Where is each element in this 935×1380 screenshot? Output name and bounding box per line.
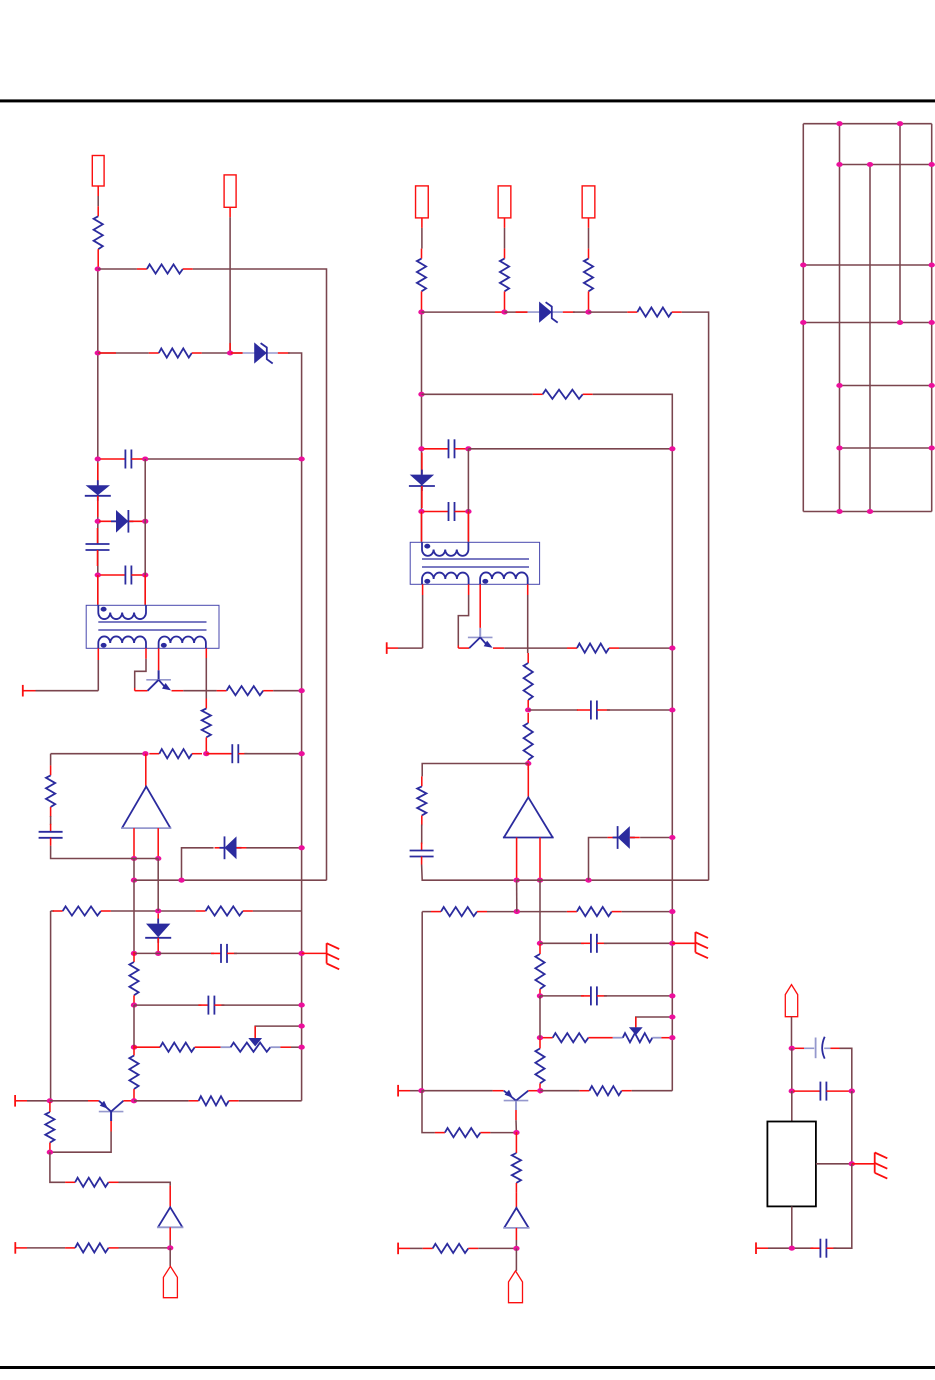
wire left rail upper [97, 268, 99, 544]
node m rowC rail A [669, 909, 675, 914]
diode D8 [608, 826, 640, 849]
wire ladder vertical 4 [899, 124, 901, 323]
wire T1 pin1 lead [97, 648, 99, 660]
wire m row1133 corner [422, 1091, 435, 1133]
wire m rowH mid [540, 1090, 579, 1092]
wire port P6 lead [398, 1247, 410, 1249]
node m rowH col [418, 1088, 424, 1093]
node U1 in1 [131, 856, 137, 861]
resistor R10 vertical [129, 952, 138, 1005]
wire row1 to right rail B [193, 269, 327, 880]
capacitor C9 [424, 502, 471, 521]
wire m pot lead left [613, 1037, 623, 1039]
wire rowC mid [111, 910, 196, 912]
node diode row rail A [298, 845, 304, 850]
op-amp U3 [503, 797, 554, 837]
node m rowH Q4 collector [537, 1088, 543, 1093]
wire m-row1 d [573, 311, 589, 313]
resistor R24 vertical [524, 713, 533, 770]
capacitor C15 [793, 1082, 852, 1101]
transformer T1 polarity dot sec2 [161, 643, 167, 648]
wire rowC to rail A [253, 910, 302, 912]
wire m row1133 b [490, 1132, 516, 1134]
wire m to bullet [515, 1248, 517, 1271]
pot wiper arrow [254, 1026, 256, 1038]
wire amp2 to node [169, 1240, 171, 1248]
resistor R6 [149, 749, 202, 758]
node diode-row right [142, 519, 148, 524]
wire to bullet [169, 1248, 171, 1266]
wire ladder vertical 2 [839, 124, 841, 512]
diode D7 [409, 453, 435, 508]
node ladder r3 a [800, 262, 806, 267]
potentiometer VR1 [231, 1043, 271, 1052]
node reg gnd [849, 1161, 855, 1166]
node ladder r6 a [836, 445, 842, 450]
wire J4 lead [504, 228, 506, 249]
resistor R17 vertical [417, 249, 426, 313]
resistor R33 vertical [512, 1132, 521, 1193]
wire row2 red stub [99, 352, 116, 354]
wire T2 pin1 down [422, 595, 424, 648]
port P1 [22, 685, 24, 697]
node m base row [513, 1130, 519, 1135]
node m col528 b [525, 761, 531, 766]
wire m-row1 red stub [495, 311, 505, 313]
wire m rowH to rail A [632, 1090, 673, 1092]
connector CN2 bullet [509, 1271, 523, 1303]
wire right col mid [851, 1091, 853, 1164]
node emitter row rail A [298, 688, 304, 693]
node m-row1 left [418, 310, 424, 315]
wire collector lead red m [457, 646, 459, 649]
wire m rowC col [421, 912, 423, 1091]
wire ladder vertical 1 [802, 124, 804, 512]
resistor R4 [217, 686, 274, 695]
wire m-cap1 to rail A [468, 448, 672, 450]
node U1 in2 [155, 856, 161, 861]
wire amp2 out lead [169, 1227, 171, 1240]
node m rowG rail A [669, 1035, 675, 1040]
resistor R13 [189, 1096, 239, 1105]
node m-row394 [418, 392, 424, 397]
node ladder r1 b [897, 121, 903, 126]
wire m pot branch [636, 1017, 673, 1027]
node ladder r2 c [929, 162, 935, 167]
wire Q4 base down [515, 1120, 517, 1132]
node diode-row left [95, 519, 101, 524]
wire pot branch [255, 1026, 301, 1037]
port P5 [397, 1085, 399, 1097]
wire emitter red [172, 690, 184, 692]
wire col134 E-G [133, 1005, 135, 1047]
wire ladder vertical 5 [931, 124, 933, 512]
node m-row1 J4 [501, 310, 507, 315]
resistor R23 vertical [524, 653, 533, 710]
wire T1 pin3 base lead [158, 648, 160, 670]
connector CN3 bullet [785, 985, 797, 1017]
node cap-row2 right [142, 572, 148, 577]
node rowD left [131, 951, 137, 956]
wire row2 b [202, 352, 243, 354]
wire m rowB [517, 879, 709, 881]
wire m468 into T2 red [467, 512, 469, 542]
resistor R28 vertical [535, 944, 544, 999]
wire m row763 [422, 764, 528, 777]
wire diode row to rail A [246, 847, 301, 849]
wire m emitter to rail A [619, 647, 672, 649]
transformer T2 primary winding [422, 542, 468, 556]
resistor R26 [431, 907, 487, 916]
capacitor C5 [39, 824, 63, 846]
wire m emitter row [504, 647, 567, 649]
wire U1 input2 lead [157, 828, 159, 858]
resistor R34 [423, 1244, 479, 1253]
resistor R12 vertical [129, 1046, 138, 1099]
wire U3 input1 lead [516, 838, 518, 881]
wire ladder vertical 3 [869, 165, 871, 512]
node ladder r6 b [929, 445, 935, 450]
wire collector lead red [134, 688, 136, 691]
node m emitter rail A [669, 646, 675, 651]
node row2-left junction [95, 350, 101, 355]
wire gnd lead [302, 952, 327, 954]
transformer T2 polarity dot primary [424, 544, 430, 549]
wire reg gnd pin [816, 1163, 850, 1165]
node m-cap1 mid [465, 446, 471, 451]
wire m rowD b [604, 942, 672, 944]
wire m-row1 to rail B [682, 312, 709, 880]
wire ladder row 4 [803, 322, 931, 324]
node m rowC in1 col [514, 909, 520, 914]
wire T2 pin3 base lead [479, 584, 481, 628]
ground G2 [695, 932, 708, 958]
resistor R16 [65, 1243, 118, 1252]
node ladder r4 b [897, 320, 903, 325]
node ladder r4 c [929, 320, 935, 325]
node out left [167, 1245, 173, 1250]
transformer T2 secondary winding 2 [480, 572, 528, 584]
transformer T2 box [410, 542, 539, 584]
transformer T1 secondary winding 1 [98, 636, 146, 648]
wire J2 lead [229, 217, 231, 353]
node m rowE left [537, 993, 543, 998]
node pot branch rail A [298, 1024, 304, 1029]
wire rowE to rail A [221, 1004, 301, 1006]
node row1-left junction [95, 266, 101, 271]
wire cap-row1 to rail A [148, 458, 302, 460]
transformer T1 secondary winding 2 [159, 636, 206, 648]
wire corner to R7 [50, 754, 52, 766]
node right col b [849, 1089, 855, 1094]
node m rowD left [537, 941, 543, 946]
wire m pot lead right [652, 1037, 661, 1039]
transformer T1 polarity dot sec1 [101, 643, 107, 648]
node rowH Q2 collector [131, 1098, 137, 1103]
wire reg bottom row [768, 1247, 813, 1249]
wire ladder row 3 [803, 264, 931, 266]
capacitor C4 [206, 744, 247, 763]
node reg top [789, 1046, 795, 1051]
node row2-J2 junction [227, 350, 233, 355]
node cap-row1 left [95, 456, 101, 461]
capacitor C7 [198, 996, 224, 1015]
wire ladder row 6 [840, 447, 932, 449]
wire rail L1 into T1 red [97, 575, 99, 605]
resistor R22 [567, 644, 619, 653]
wire port P7 lead [756, 1247, 768, 1249]
capacitor C13 [581, 986, 607, 1005]
wire reg bottom pin [791, 1206, 793, 1248]
node m rowD rail A [669, 941, 675, 946]
wire rowH to rail A [239, 1100, 302, 1102]
regulator U5 box [767, 1122, 816, 1207]
node row754 rail A [298, 751, 304, 756]
resistor R3 [149, 348, 202, 357]
wire rowG to rail A [291, 1046, 302, 1048]
wire R25 to C11 [421, 825, 423, 845]
transformer T2 polarity dot sec2 [482, 579, 488, 584]
wire U1 input1 lead [133, 828, 135, 858]
wire row1248 to node [119, 1247, 171, 1249]
node rowH left col [47, 1098, 53, 1103]
wire in1 col down [133, 859, 135, 881]
wire port row [36, 690, 99, 692]
wire J1 lead [97, 196, 99, 206]
node R5 bottom [203, 751, 209, 756]
wire J1 stub [97, 186, 99, 196]
wire rowH left [27, 1100, 51, 1102]
node m out [513, 1246, 519, 1251]
transformer T1 box [86, 605, 219, 648]
wire T2 pin2 lead [468, 584, 470, 595]
zener diode D6 [516, 302, 575, 323]
wire amp4 out lead [515, 1228, 517, 1240]
wire J5 lead [588, 228, 590, 249]
wire m1 into T2 red [421, 512, 423, 542]
wire amp4 apex lead [515, 1193, 517, 1208]
wire Q2 collector red [123, 1100, 134, 1102]
wire in1 col down2 [133, 880, 135, 953]
resistor R2 [137, 264, 193, 273]
resistor R7 vertical [46, 765, 55, 817]
wire amp2 apex lead [169, 1186, 171, 1208]
resistor R32 [435, 1128, 491, 1137]
node rowB diode branch [178, 878, 184, 883]
wire row1 a [98, 268, 137, 270]
wire rowH mid [134, 1100, 189, 1102]
capacitor C12 [581, 934, 607, 953]
node m-cap1 rail A [669, 446, 675, 451]
wire rowC corner stub [51, 910, 54, 912]
wire in2 col down [157, 859, 159, 912]
wire m-row394 a [422, 393, 533, 395]
transistor Q1 [146, 670, 171, 690]
transformer T2 secondary winding 1 [422, 573, 469, 585]
node ladder r2 b [867, 162, 873, 167]
wire m caprow710 b [607, 709, 672, 711]
wire CN3 down [791, 1017, 793, 1049]
wire port P5 lead [398, 1090, 410, 1092]
wire U3 input2 lead [539, 838, 541, 881]
wire row1248 left [27, 1247, 65, 1249]
wire left col corner [50, 1152, 65, 1182]
wire T1 pin2 jog [135, 659, 146, 688]
node m rowB diode branch [585, 878, 591, 883]
wire T2 pin1 lead [422, 584, 424, 595]
connector J4 [498, 186, 511, 218]
wire C14 to right col [840, 1048, 852, 1091]
resistor R31 [579, 1086, 631, 1095]
wire T1 pin4 lead [205, 648, 207, 658]
wire ladder row 2 [840, 164, 932, 166]
capacitor C1 [100, 450, 143, 469]
port P4 [386, 642, 388, 654]
wire pot lead left [221, 1046, 231, 1048]
node row754 amp feed [142, 751, 148, 756]
wire rowH emitter wire [50, 1100, 88, 1102]
op-amp U2 [157, 1207, 184, 1227]
capacitor C14 polarized [795, 1037, 840, 1059]
node m-cap1 left [418, 446, 424, 451]
ground G1 [327, 943, 340, 969]
transformer T2 polarity dot sec1 [424, 579, 430, 584]
wire diode branch corner [182, 848, 214, 880]
wire port P4 lead [387, 647, 398, 649]
node cap-row1 mid [142, 456, 148, 461]
wire ladder row 1 [803, 123, 931, 125]
capacitor C10 [577, 701, 610, 720]
wire row754 to rail A [244, 753, 301, 755]
node reg bottom [789, 1246, 795, 1251]
wire rowA mid [122, 858, 158, 860]
connector CN1 bullet [163, 1266, 177, 1297]
node ladder r1 a [836, 121, 842, 126]
node U3 in2 [537, 878, 543, 883]
zener diode D1 [231, 342, 290, 363]
wire row754 left [51, 753, 146, 755]
transformer T1 polarity dot primary [101, 607, 107, 612]
wire rail L2 caps [144, 459, 146, 605]
capacitor C3 [100, 566, 143, 585]
wire J2 red stub [229, 343, 231, 353]
resistor R11 [134, 1046, 161, 1048]
wire Q4 collector red [528, 1090, 540, 1092]
node base row [47, 1150, 53, 1155]
transformer T1 primary winding [98, 605, 146, 619]
wire J5 stub [588, 218, 590, 228]
transistor Q2 [99, 1101, 124, 1121]
node m caprow710 rail A [669, 707, 675, 712]
port P6 [397, 1243, 399, 1255]
wire m rowH left [410, 1090, 422, 1092]
resistor R27 [567, 907, 622, 916]
wire row2 to rail A [288, 353, 302, 1101]
node m-cap2 left [418, 509, 424, 514]
resistor R15 [65, 1178, 118, 1187]
port P7 [755, 1242, 757, 1254]
wire ladder row 5 [840, 385, 932, 387]
node rowG left [131, 1045, 137, 1050]
wire J2 stub [229, 207, 231, 217]
wire m rowE b [604, 995, 672, 997]
wire rowD to rail A [234, 952, 302, 954]
node ladder r2 a [836, 162, 842, 167]
resistor R18 vertical [500, 249, 509, 313]
ground G3 [875, 1153, 888, 1179]
wire reg col [791, 1048, 793, 1091]
wire R15 to amp [119, 1182, 171, 1185]
wire m rowC to rail A [622, 911, 673, 913]
node U3 in1 [513, 878, 519, 883]
wire rowB [134, 879, 327, 881]
wire pot red right [280, 1046, 291, 1048]
wire T1 pin4 down [205, 658, 207, 699]
wire rowC left col [50, 911, 52, 1101]
wire Q2 base red [110, 1121, 112, 1132]
wire m-row1 b [505, 311, 528, 313]
wire J3 stub [421, 218, 423, 228]
wire T2 pin4 lead [527, 584, 529, 595]
wire m diode branch corner [589, 838, 608, 881]
wire gnd2 lead [852, 1163, 875, 1165]
node rowC in2 col [155, 908, 161, 913]
port P2 [14, 1095, 16, 1107]
wire m port row [398, 647, 423, 649]
capacitor C16 [810, 1239, 836, 1258]
wire ladder row 7 [803, 511, 931, 513]
wire reg top pin [791, 1091, 793, 1121]
wire U3 apex lead [527, 764, 529, 798]
wire port P2 lead [15, 1100, 27, 1102]
wire m rowC b [487, 911, 567, 913]
transformer T2 core [422, 558, 529, 560]
node rowB left [131, 878, 137, 883]
wire T1 pin2 lead [145, 648, 147, 659]
wire T1 pin1 down [97, 660, 99, 691]
bottom rule [0, 1366, 935, 1369]
potentiometer VR2 [623, 1033, 653, 1042]
wire amp4 to node [515, 1240, 517, 1248]
connector J1 [92, 156, 104, 187]
wire T2 pin2 jog [458, 595, 468, 646]
wire amp output lead [145, 754, 147, 787]
node m rowE rail A [669, 993, 675, 998]
node ladder r4 a [800, 320, 806, 325]
transistor Q3 [468, 628, 493, 648]
wire rowD [134, 952, 214, 954]
wire C11 to rowB m [422, 865, 514, 881]
resistor R29 [543, 1037, 553, 1039]
node rowD rail A [298, 951, 304, 956]
resistor R1 vertical [94, 206, 103, 269]
capacitor C8 [424, 439, 471, 458]
wire pot lead right [270, 1046, 280, 1048]
node rowD d5 [155, 951, 161, 956]
wire m-row394 to rail A [593, 394, 673, 1090]
wire emitter row to rail A [273, 690, 301, 692]
capacitor C11 [410, 843, 434, 865]
node m pot branch rail A [669, 1014, 675, 1019]
wire m gnd lead [672, 942, 695, 944]
node rowG rail A [298, 1045, 304, 1050]
wire Q3 emitter red [493, 647, 504, 649]
wire J4 stub [504, 218, 506, 228]
wire m1 col [421, 312, 423, 542]
connector J5 [582, 186, 595, 218]
node ladder r5 b [929, 383, 935, 388]
resistor R5 vertical [202, 699, 211, 755]
